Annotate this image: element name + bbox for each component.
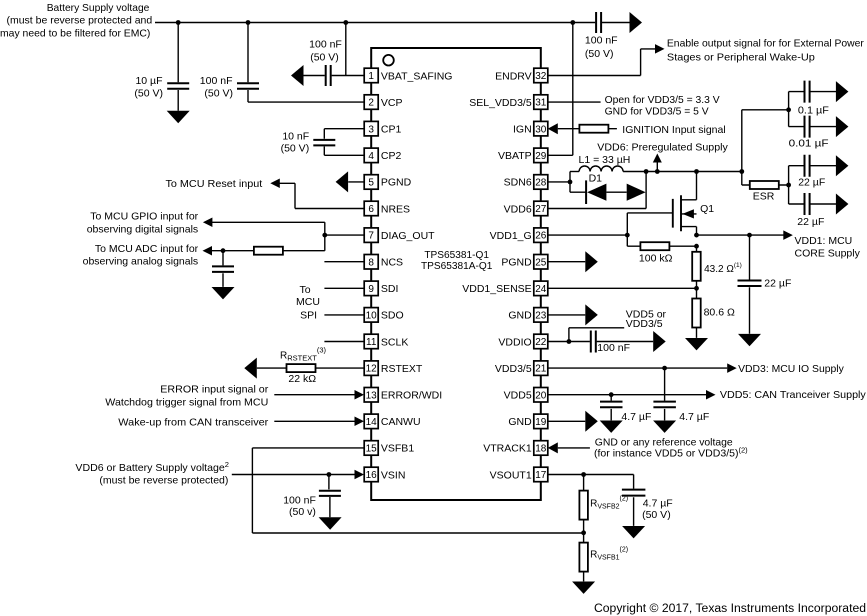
svg-text:4: 4: [368, 151, 374, 162]
svg-text:20: 20: [535, 390, 547, 401]
svg-text:To MCU Reset input: To MCU Reset input: [165, 178, 262, 190]
svg-text:NRES: NRES: [381, 203, 410, 215]
svg-text:14: 14: [366, 417, 378, 428]
svg-text:VDD1_SENSE: VDD1_SENSE: [462, 283, 531, 295]
svg-text:IGNITION Input signal: IGNITION Input signal: [622, 124, 725, 136]
svg-text:(50 V): (50 V): [310, 52, 339, 64]
svg-text:(for instance VDD5 or VDD3/5)(: (for instance VDD5 or VDD3/5)(2): [594, 446, 748, 460]
svg-text:11: 11: [366, 337, 377, 348]
svg-text:DIAG_OUT: DIAG_OUT: [381, 230, 435, 242]
svg-text:VDD5: CAN Tranceiver Supply: VDD5: CAN Tranceiver Supply: [720, 389, 867, 401]
svg-text:19: 19: [535, 417, 547, 428]
svg-text:CP2: CP2: [381, 150, 402, 162]
svg-text:VDD6: VDD6: [504, 203, 532, 215]
svg-text:VSIN: VSIN: [381, 469, 406, 481]
svg-text:100 nF: 100 nF: [283, 494, 316, 506]
svg-text:VBAT_SAFING: VBAT_SAFING: [381, 70, 453, 82]
svg-text:12: 12: [366, 364, 378, 375]
svg-text:CORE Supply: CORE Supply: [795, 248, 861, 260]
svg-text:D1: D1: [589, 172, 603, 184]
svg-text:VDD3/5: VDD3/5: [495, 363, 532, 375]
svg-text:13: 13: [366, 390, 378, 401]
svg-text:VSFB1: VSFB1: [381, 443, 414, 455]
svg-text:To: To: [299, 284, 310, 296]
svg-text:(must be reverse protected and: (must be reverse protected and: [7, 15, 153, 27]
svg-text:VDD6: Preregulated Supply: VDD6: Preregulated Supply: [597, 141, 728, 153]
svg-text:22 µF: 22 µF: [798, 176, 825, 188]
svg-text:22 µF: 22 µF: [764, 277, 791, 289]
svg-text:31: 31: [535, 98, 547, 109]
svg-text:1: 1: [368, 71, 374, 82]
svg-text:Enable output signal for for E: Enable output signal for for External Po…: [667, 37, 864, 49]
svg-text:PGND: PGND: [501, 257, 532, 269]
svg-text:NCS: NCS: [381, 257, 403, 269]
svg-text:VBATP: VBATP: [498, 150, 532, 162]
svg-text:SCLK: SCLK: [381, 336, 408, 348]
svg-text:7: 7: [368, 231, 374, 242]
svg-text:Watchdog trigger signal from M: Watchdog trigger signal from MCU: [105, 397, 268, 409]
svg-text:3: 3: [368, 124, 374, 135]
svg-text:21: 21: [535, 364, 547, 375]
svg-text:0.1 µF: 0.1 µF: [798, 105, 829, 117]
svg-text:10: 10: [366, 311, 378, 322]
svg-text:VDDIO: VDDIO: [498, 336, 531, 348]
svg-text:TPS65381A-Q1: TPS65381A-Q1: [421, 261, 493, 272]
svg-text:25: 25: [535, 257, 547, 268]
svg-text:5: 5: [368, 178, 374, 189]
svg-text:ERROR/WDI: ERROR/WDI: [381, 390, 442, 402]
svg-text:10 µF: 10 µF: [135, 75, 162, 87]
svg-text:Wake-up from CAN transceiver: Wake-up from CAN transceiver: [118, 416, 269, 428]
svg-text:4.7 µF: 4.7 µF: [643, 498, 673, 510]
svg-text:VSOUT1: VSOUT1: [490, 469, 532, 481]
svg-text:GND for VDD3/5 = 5 V: GND for VDD3/5 = 5 V: [605, 106, 709, 118]
svg-text:6: 6: [368, 204, 374, 215]
svg-text:observing digital signals: observing digital signals: [87, 223, 198, 235]
svg-text:SDO: SDO: [381, 310, 404, 322]
svg-text:SDI: SDI: [381, 283, 399, 295]
svg-text:100 nF: 100 nF: [585, 35, 618, 47]
svg-text:9: 9: [368, 284, 374, 295]
svg-text:VCP: VCP: [381, 97, 403, 109]
svg-text:IGN: IGN: [513, 124, 532, 136]
svg-text:15: 15: [366, 444, 378, 455]
svg-text:0.01 µF: 0.01 µF: [789, 138, 829, 150]
svg-text:(50 V): (50 V): [134, 88, 163, 100]
svg-text:2: 2: [368, 98, 374, 109]
svg-text:PGND: PGND: [381, 177, 412, 189]
svg-text:(50 V): (50 V): [642, 509, 671, 521]
svg-text:may need to be filtered for EM: may need to be filtered for EMC): [0, 27, 150, 39]
svg-text:22: 22: [535, 337, 547, 348]
svg-text:32: 32: [535, 71, 547, 82]
svg-text:To MCU GPIO input for: To MCU GPIO input for: [90, 210, 198, 222]
svg-text:27: 27: [535, 204, 547, 215]
svg-text:L1 = 33 µH: L1 = 33 µH: [579, 154, 631, 166]
svg-text:22 µF: 22 µF: [797, 216, 824, 228]
svg-text:To MCU ADC input for: To MCU ADC input for: [95, 243, 199, 255]
svg-text:100 kΩ: 100 kΩ: [639, 252, 673, 264]
svg-text:(50 V): (50 V): [204, 88, 233, 100]
svg-text:4.7 µF: 4.7 µF: [621, 411, 651, 423]
svg-text:100 nF: 100 nF: [309, 38, 342, 50]
svg-text:4.7 µF: 4.7 µF: [679, 411, 709, 423]
svg-text:80.6 Ω: 80.6 Ω: [704, 307, 735, 319]
svg-text:VDD6 or Battery Supply voltage: VDD6 or Battery Supply voltage2: [75, 460, 229, 474]
svg-text:TPS65381-Q1: TPS65381-Q1: [424, 250, 489, 261]
svg-text:8: 8: [368, 257, 374, 268]
svg-text:29: 29: [535, 151, 547, 162]
svg-text:ESR: ESR: [753, 191, 775, 203]
svg-text:GND: GND: [508, 416, 532, 428]
svg-text:VTRACK1: VTRACK1: [483, 443, 532, 455]
svg-text:16: 16: [366, 470, 378, 481]
svg-text:(must be reverse protected): (must be reverse protected): [99, 475, 228, 487]
svg-text:26: 26: [535, 231, 547, 242]
svg-text:(50 v): (50 v): [289, 506, 316, 518]
svg-text:100 nF: 100 nF: [597, 342, 630, 354]
svg-text:Open for VDD3/5 = 3.3 V: Open for VDD3/5 = 3.3 V: [605, 94, 720, 106]
svg-text:CP1: CP1: [381, 124, 402, 136]
svg-text:RSTEXT: RSTEXT: [381, 363, 423, 375]
svg-text:23: 23: [535, 311, 547, 322]
svg-text:30: 30: [535, 124, 547, 135]
svg-text:(50 V): (50 V): [281, 142, 310, 154]
svg-text:10 nF: 10 nF: [282, 130, 309, 142]
svg-text:Q1: Q1: [700, 203, 714, 215]
svg-text:Copyright © 2017, Texas Instru: Copyright © 2017, Texas Instruments Inco…: [594, 603, 866, 615]
svg-text:VDD5: VDD5: [504, 390, 532, 402]
svg-text:ENDRV: ENDRV: [495, 70, 532, 82]
svg-text:22 kΩ: 22 kΩ: [288, 373, 316, 385]
svg-text:18: 18: [535, 444, 547, 455]
svg-text:VDD1_G: VDD1_G: [490, 230, 532, 242]
svg-text:SPI: SPI: [300, 310, 317, 322]
svg-text:Stages or Peripheral Wake-Up: Stages or Peripheral Wake-Up: [667, 51, 815, 63]
svg-text:VDD3: MCU IO Supply: VDD3: MCU IO Supply: [738, 363, 844, 375]
svg-text:MCU: MCU: [296, 296, 320, 308]
svg-text:SDN6: SDN6: [504, 177, 532, 189]
svg-text:(50 V): (50 V): [585, 48, 614, 60]
svg-text:ERROR input signal or: ERROR input signal or: [160, 384, 269, 396]
svg-text:SEL_VDD3/5: SEL_VDD3/5: [469, 97, 532, 109]
svg-text:24: 24: [535, 284, 547, 295]
svg-text:GND: GND: [508, 310, 532, 322]
svg-text:28: 28: [535, 178, 547, 189]
svg-text:100 nF: 100 nF: [200, 75, 233, 87]
svg-text:observing analog signals: observing analog signals: [83, 255, 199, 267]
svg-text:VDD3/5: VDD3/5: [626, 318, 663, 330]
svg-text:17: 17: [535, 470, 547, 481]
svg-text:Battery Supply voltage: Battery Supply voltage: [47, 2, 150, 14]
svg-text:VDD1: MCU: VDD1: MCU: [795, 235, 853, 247]
svg-text:CANWU: CANWU: [381, 416, 421, 428]
